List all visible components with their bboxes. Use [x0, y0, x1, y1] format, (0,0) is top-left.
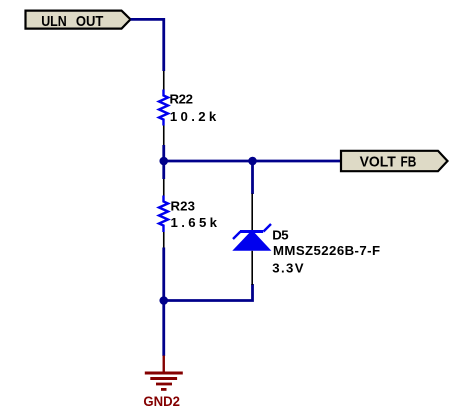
wire node C to D5 — [164, 284, 253, 301]
svg-text:D5: D5 — [272, 228, 288, 243]
svg-text:GND2: GND2 — [143, 393, 180, 409]
resistor R22 — [159, 71, 168, 146]
svg-text:ULN: ULN — [41, 14, 67, 30]
svg-text:MMSZ5226B-7-F: MMSZ5226B-7-F — [273, 243, 380, 258]
svg-text:10.2k: 10.2k — [170, 109, 217, 124]
wire node B to D5 — [251, 161, 254, 194]
svg-text:VOLT: VOLT — [360, 154, 396, 170]
wire node A to R23 — [162, 161, 165, 179]
wire ULN_OUT to R22 — [131, 19, 164, 71]
node B junction dot — [248, 157, 257, 166]
port VOLT_FB — [341, 151, 448, 171]
svg-text:OUT: OUT — [76, 14, 104, 30]
svg-text:1.65k: 1.65k — [171, 215, 218, 230]
resistor R23 — [159, 179, 168, 249]
svg-text:R22: R22 — [170, 92, 194, 107]
wire node C to GND2 — [162, 301, 165, 357]
wire R23 to node C — [162, 248, 165, 301]
svg-text:3.3V: 3.3V — [272, 261, 303, 276]
port ULN_OUT — [26, 11, 131, 30]
svg-text:R23: R23 — [171, 199, 196, 214]
power symbol GND2 — [145, 356, 183, 390]
svg-text:FB: FB — [401, 154, 417, 170]
zener diode D5 — [232, 194, 271, 286]
wire node A to VOLT_FB — [164, 160, 341, 163]
node A junction dot — [159, 157, 168, 166]
node C junction dot — [159, 296, 168, 305]
wire R22 to node A — [162, 145, 165, 161]
